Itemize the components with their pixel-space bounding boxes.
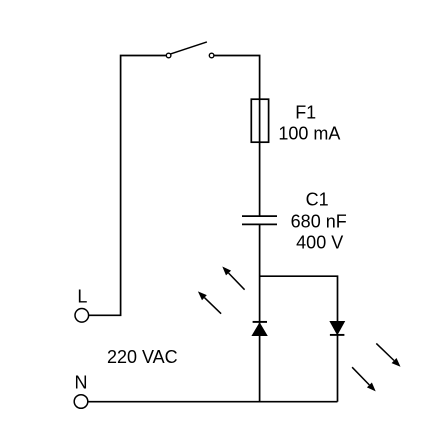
terminal N	[74, 395, 88, 409]
diode D2 (pointing down, cathode bar below)	[330, 322, 345, 402]
svg-text:L: L	[77, 287, 87, 307]
svg-text:680 nF: 680 nF	[291, 212, 347, 232]
light absorption arrow (upper) at diode D2	[376, 343, 400, 366]
node: branch junction at top of diode pair / wire across to right branch	[260, 276, 338, 321]
value label 100 mA	[278, 123, 340, 143]
fuse F1	[251, 99, 268, 142]
svg-text:220 VAC: 220 VAC	[107, 347, 178, 367]
svg-text:400 V: 400 V	[296, 233, 343, 253]
label F1	[295, 103, 316, 123]
svg-text:C1: C1	[306, 190, 329, 210]
label L	[77, 287, 87, 307]
svg-text:F1: F1	[295, 103, 316, 123]
label N	[75, 372, 88, 392]
capacitor C1	[242, 216, 277, 224]
value label 400 V	[296, 233, 343, 253]
LED D1 (conducting upward, cathode bar on top)	[252, 322, 267, 336]
label C1	[306, 190, 329, 210]
light emission arrow (lower) of LED D1	[198, 291, 221, 313]
terminal L	[75, 309, 89, 323]
wire: fuse to capacitor C1 top plate	[259, 142, 261, 216]
value label 680 nF	[291, 212, 347, 232]
net label 220 VAC	[107, 347, 178, 367]
svg-text:100 mA: 100 mA	[278, 123, 340, 143]
light absorption arrow (lower) at diode D2	[352, 367, 376, 391]
wire: capacitor bottom plate down through LED D1 to bottom rail	[259, 224, 261, 401]
switch S1	[166, 42, 214, 58]
wire: switch throw to top-right corner, down into fuse	[214, 56, 260, 100]
wire: bottom rail from N terminal to right branch	[88, 401, 338, 403]
svg-text:N: N	[75, 372, 88, 392]
light emission arrow (upper) of LED D1	[222, 267, 244, 290]
wire: left rail (L terminal up to top-left corner and across to switch pole)	[89, 56, 167, 316]
